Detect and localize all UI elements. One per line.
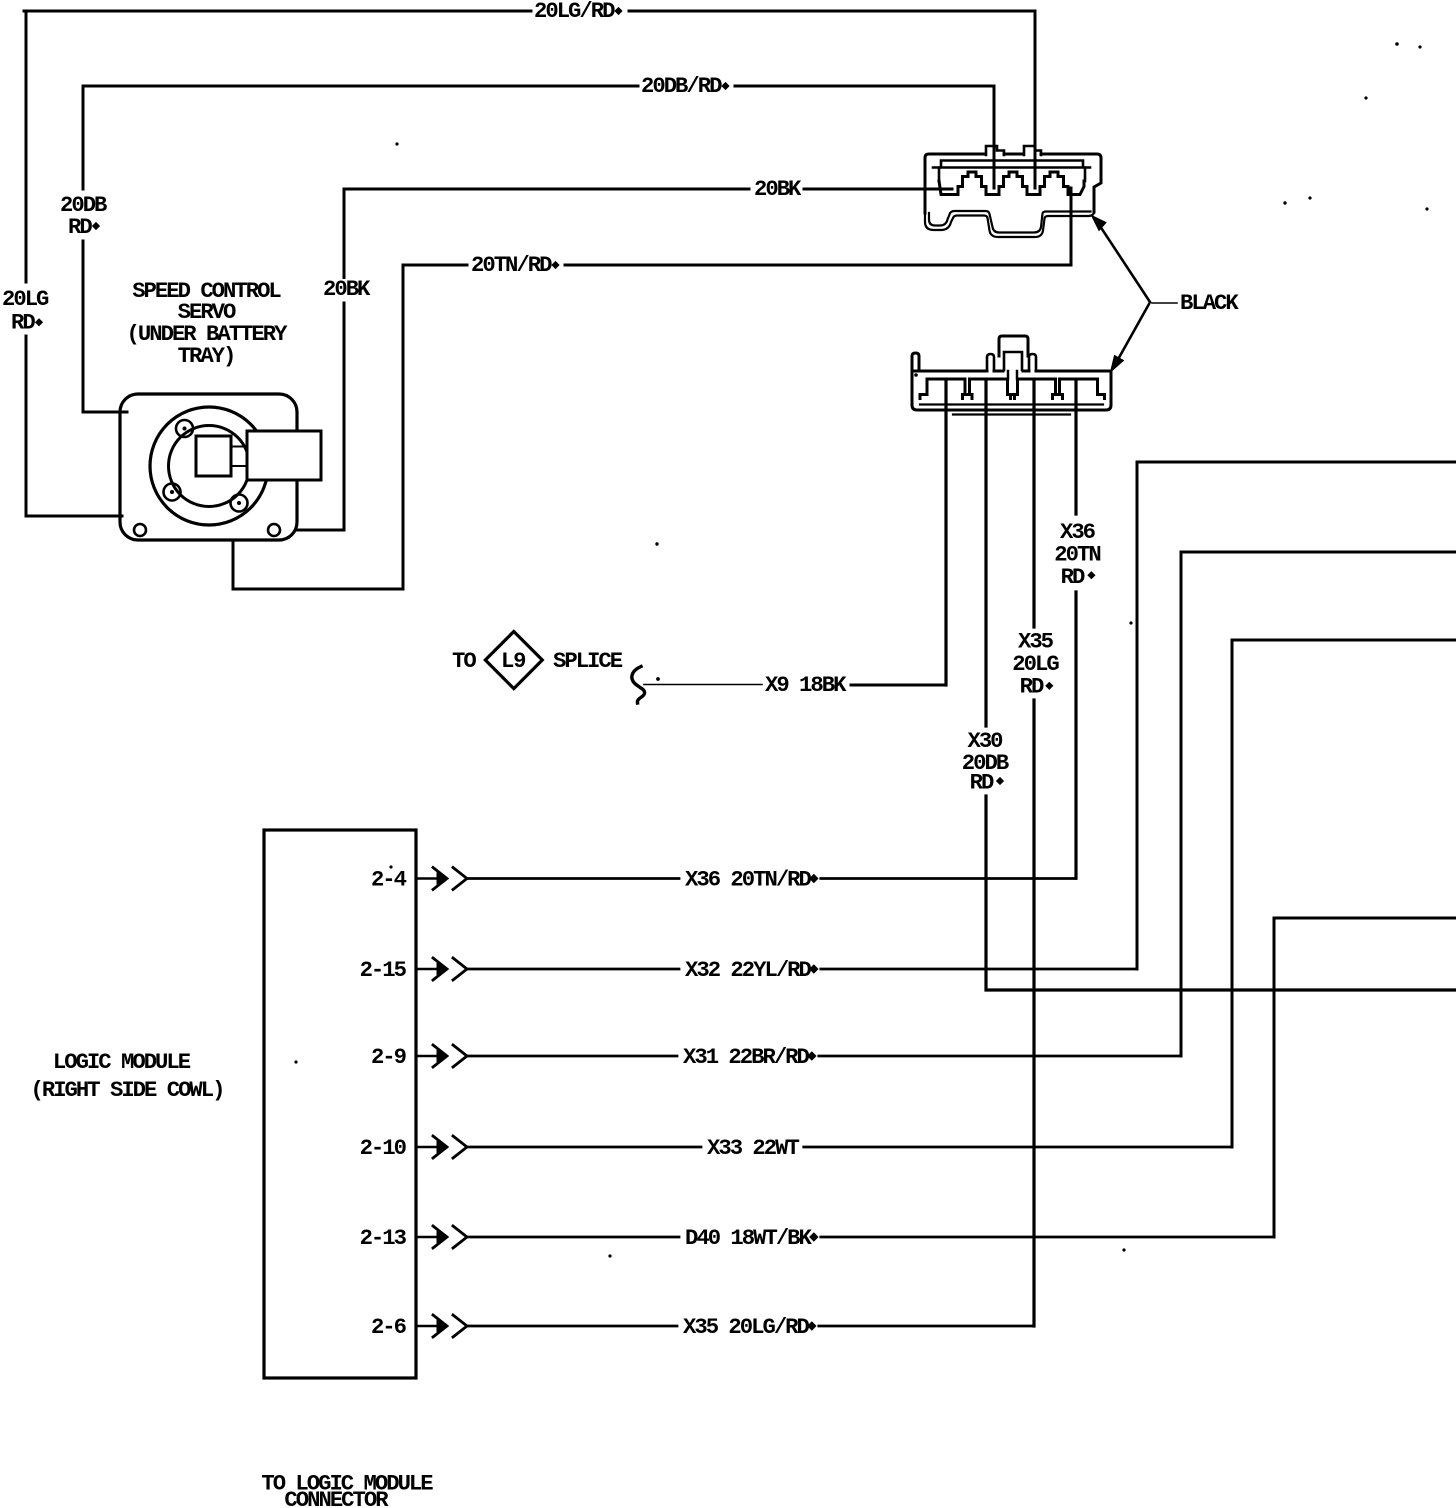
svg-text:X9 18BK: X9 18BK [765, 672, 847, 698]
svg-text:20BK: 20BK [323, 276, 371, 302]
svg-text:CONNECTOR: CONNECTOR [284, 1487, 389, 1508]
svg-text:2-13: 2-13 [360, 1225, 407, 1251]
svg-text:SPLICE: SPLICE [553, 648, 623, 674]
svg-text:RD: RD [970, 770, 994, 796]
svg-text:LOGIC MODULE: LOGIC MODULE [53, 1049, 191, 1075]
svg-text:X32 22YL/RD: X32 22YL/RD [685, 957, 812, 983]
svg-text:20LG: 20LG [2, 286, 49, 312]
svg-text:RD: RD [11, 310, 35, 336]
svg-text:D40 18WT/BK: D40 18WT/BK [685, 1225, 813, 1251]
svg-text:2-6: 2-6 [371, 1314, 407, 1340]
svg-text:(RIGHT SIDE COWL): (RIGHT SIDE COWL) [31, 1077, 224, 1103]
svg-text:20TN/RD: 20TN/RD [471, 252, 552, 278]
svg-text:20DB/RD: 20DB/RD [641, 73, 722, 99]
svg-text:20LG/RD: 20LG/RD [534, 0, 615, 24]
svg-text:2-10: 2-10 [360, 1135, 407, 1161]
svg-text:2-4: 2-4 [371, 867, 407, 893]
svg-text:X36 20TN/RD: X36 20TN/RD [685, 867, 812, 893]
svg-text:BLACK: BLACK [1180, 290, 1239, 316]
svg-text:RD: RD [1020, 674, 1044, 700]
svg-text:TO: TO [452, 648, 476, 674]
svg-text:2-9: 2-9 [371, 1044, 407, 1070]
svg-text:X35 20LG/RD: X35 20LG/RD [683, 1314, 810, 1340]
svg-text:20BK: 20BK [754, 176, 802, 202]
svg-text:TRAY): TRAY) [178, 343, 235, 369]
svg-text:RD: RD [68, 214, 92, 240]
svg-text:2-15: 2-15 [360, 957, 407, 983]
svg-text:X31 22BR/RD: X31 22BR/RD [683, 1044, 810, 1070]
svg-text:X33 22WT: X33 22WT [707, 1135, 799, 1161]
svg-text:L9: L9 [501, 648, 526, 674]
svg-text:RD: RD [1061, 564, 1085, 590]
